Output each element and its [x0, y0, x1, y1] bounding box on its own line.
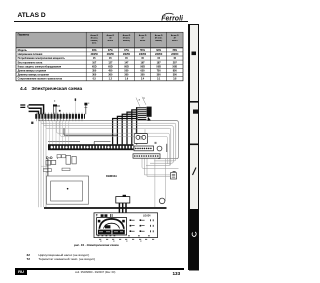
band circles — [51, 146, 53, 148]
svg-text:b: b — [144, 98, 146, 100]
wire heavy mid — [64, 128, 118, 135]
connector X8 — [62, 168, 70, 171]
table frame — [16, 32, 183, 81]
connector X7 — [43, 169, 51, 172]
enclosure bottom edge — [44, 207, 167, 209]
board right edge — [166, 144, 168, 152]
relay K2 — [72, 156, 76, 164]
ferroli logo — [158, 11, 186, 23]
transformer top lead — [133, 129, 145, 134]
burner graphic logo — [98, 230, 112, 235]
contact symbols col2 — [140, 219, 142, 232]
wire mains N — [29, 108, 41, 114]
bus ring wires — [39, 119, 179, 159]
X1 pin stubs top — [36, 113, 82, 115]
display dot — [67, 188, 69, 190]
contact symbols col1 — [130, 219, 132, 232]
board connector A — [134, 146, 154, 151]
display module inner — [51, 181, 83, 201]
X1 pin stubs bottom — [36, 119, 82, 122]
header rule — [14, 21, 189, 22]
strip tap label — [75, 98, 76, 101]
svg-text:DBM03A: DBM03A — [106, 174, 117, 178]
legend line 32 — [27, 253, 90, 257]
board connector B — [133, 154, 160, 158]
inner ring wires — [57, 119, 170, 165]
svg-text:32: 32 — [26, 105, 28, 108]
footer RU badge — [15, 268, 27, 275]
display module outer — [47, 176, 89, 204]
bus terminal box X2 — [171, 173, 177, 179]
box top marks — [96, 214, 98, 216]
wire bundle 72 to board — [113, 108, 138, 145]
right page border — [188, 24, 190, 270]
mains supply symbol — [20, 105, 25, 107]
board small relays — [57, 155, 61, 158]
wire board top left — [48, 140, 80, 142]
footer code — [75, 271, 115, 274]
fuse F2 — [51, 160, 56, 164]
burner plug P1 — [116, 197, 130, 203]
lamp — [159, 198, 165, 204]
wires B to X2 — [142, 158, 179, 176]
transformer pin — [155, 142, 156, 144]
burner graphic arc — [99, 219, 124, 229]
fuse F1 — [46, 160, 51, 165]
svg-text:a: a — [139, 100, 141, 102]
wires X1 to board — [50, 121, 69, 144]
burner control LOA24 box — [94, 213, 158, 238]
footer rule — [27, 268, 184, 269]
wire to lamp — [165, 158, 167, 201]
header title — [18, 12, 46, 19]
node label c — [31, 122, 33, 124]
box bottom marks — [98, 235, 150, 237]
burner graphic panel — [97, 218, 127, 235]
relay K1 — [66, 155, 71, 164]
figure caption — [74, 243, 119, 247]
svg-text:D:O: D:O — [46, 156, 53, 160]
board edge connector band — [48, 144, 134, 150]
right tab strip — [189, 24, 201, 272]
section heading — [20, 87, 82, 92]
legend line 72 — [27, 257, 96, 261]
connector 72 — [138, 108, 147, 120]
wire display feed — [47, 159, 49, 176]
page number — [173, 271, 181, 276]
data table — [0, 0, 200, 85]
terminal labels under box — [99, 238, 154, 240]
svg-text:LOA24: LOA24 — [143, 214, 151, 217]
ignition transformer — [134, 134, 147, 144]
wire mains L — [29, 105, 44, 114]
burner cable — [119, 203, 126, 213]
board relay circle — [157, 146, 162, 151]
header band — [16, 33, 182, 48]
wire to bottom bus — [154, 158, 156, 207]
contact symbols col3 — [151, 219, 154, 232]
wire board top right — [94, 141, 110, 144]
bus taps to display — [41, 166, 48, 172]
wire mains PE — [29, 111, 39, 114]
fuse F — [84, 103, 87, 106]
bus left drops — [39, 121, 47, 208]
jumper on X1 — [53, 104, 57, 106]
terminal strip X1 — [35, 114, 85, 119]
